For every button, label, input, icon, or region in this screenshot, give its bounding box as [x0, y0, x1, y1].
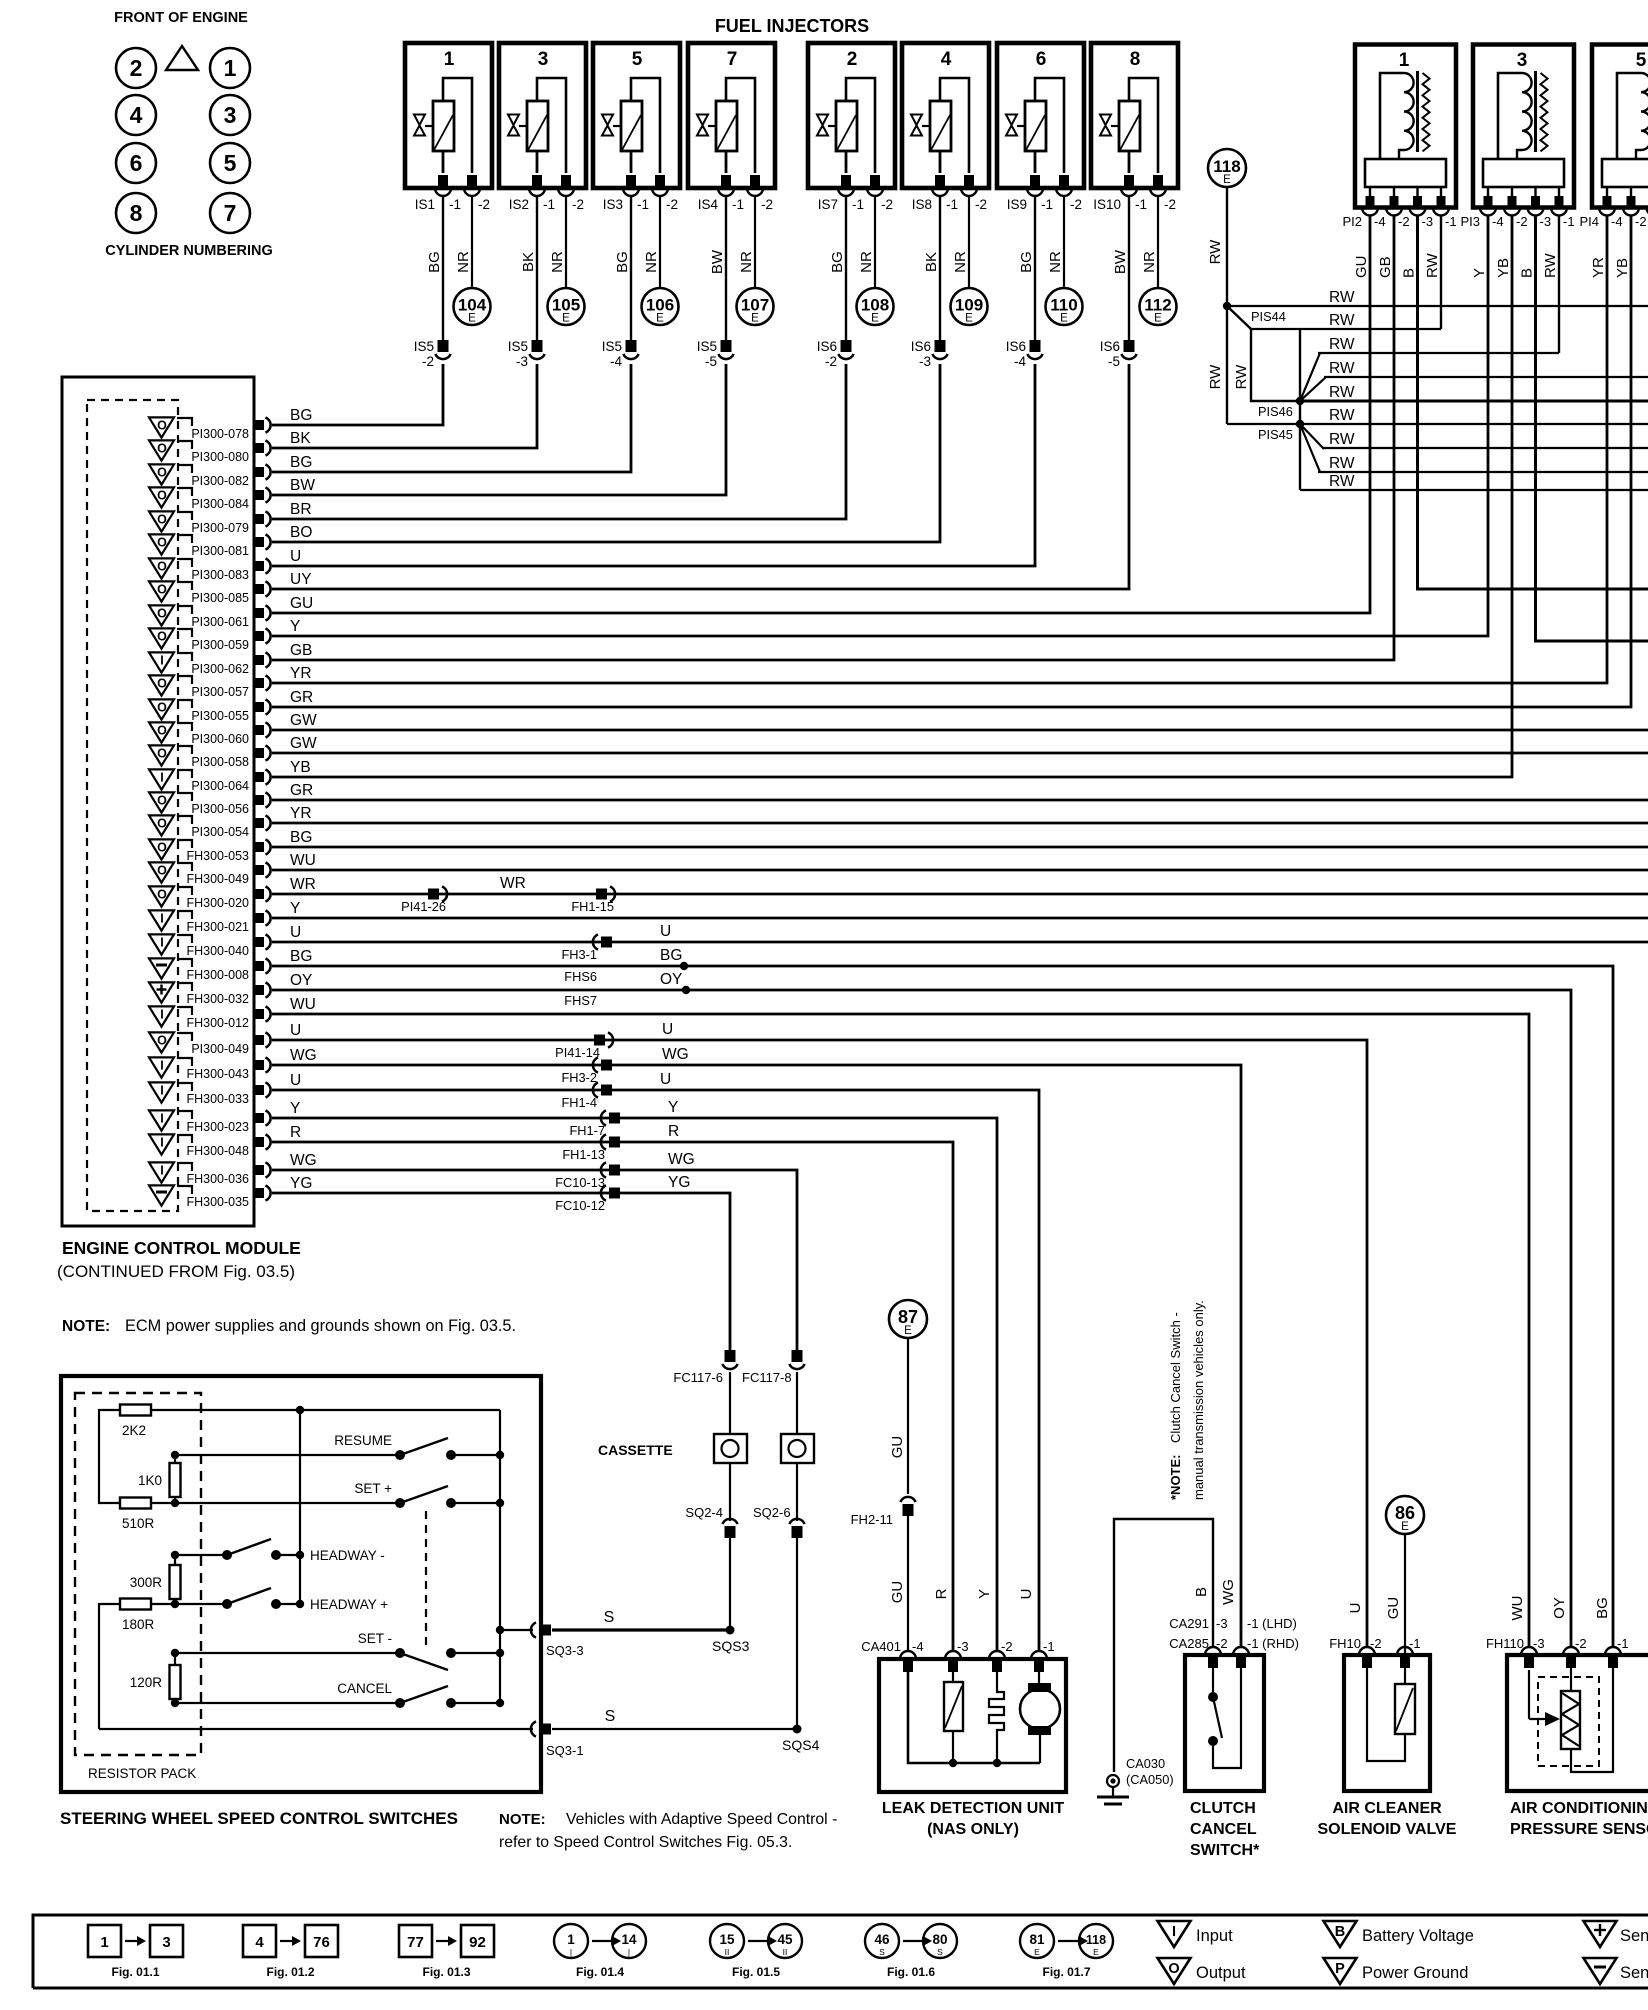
svg-text:2: 2	[130, 55, 143, 81]
ECM pin label FH300-048	[186, 1144, 249, 1158]
ECM pin terminal PI300-057	[254, 675, 271, 690]
coil 5 pin -4	[1599, 196, 1615, 216]
wire label RW row 9	[1329, 473, 1355, 490]
splice SQS3	[712, 1626, 750, 1655]
svg-text:5: 5	[1636, 50, 1647, 71]
svg-text:NR: NR	[1047, 251, 1064, 273]
wire label BG (air con)	[1594, 1597, 1611, 1619]
ECM pin label PI300-060	[191, 732, 249, 746]
ECM pin label FH300-033	[186, 1092, 249, 1106]
svg-text:-1: -1	[946, 197, 958, 212]
svg-text:Fig. 01.5: Fig. 01.5	[732, 1965, 780, 1979]
injector 2 pin -2	[867, 175, 883, 196]
svg-text:4: 4	[130, 102, 143, 128]
ECM pin symbol PI300-060 (output)	[149, 722, 174, 742]
connector label FH10	[1329, 1636, 1420, 1651]
coil 1 pin stubs	[1370, 187, 1441, 197]
svg-text:YG: YG	[668, 1174, 690, 1191]
svg-text:S: S	[605, 1708, 616, 1725]
svg-text:-1: -1	[732, 197, 744, 212]
connector label CA291/CA285	[1169, 1616, 1299, 1651]
svg-text:3: 3	[538, 49, 549, 70]
svg-text:RW: RW	[1329, 455, 1355, 472]
svg-text:B: B	[1401, 268, 1418, 278]
injector 7 pin -1	[718, 175, 734, 196]
svg-text:PI300-054: PI300-054	[191, 825, 249, 839]
svg-text:1: 1	[224, 55, 237, 81]
ECM pin label FH300-008	[186, 968, 249, 982]
svg-text:-2: -2	[1398, 214, 1410, 229]
coil 3 pin -3	[1528, 196, 1544, 216]
ground E106	[642, 288, 679, 325]
svg-text:P: P	[1335, 1961, 1345, 1977]
svg-text:S: S	[937, 1947, 943, 1957]
svg-text:FH300-033: FH300-033	[186, 1092, 249, 1106]
svg-text:E: E	[965, 313, 973, 325]
ECM pin bracket PI300-084	[177, 488, 192, 496]
svg-text:E: E	[871, 313, 879, 325]
svg-text:NR: NR	[738, 251, 755, 273]
legend ground range 46-80 (Fig. 01.6)	[865, 1924, 957, 1979]
svg-text:4: 4	[255, 1934, 264, 1951]
wire WG ECM to component	[272, 1170, 797, 1350]
svg-text:PI300-062: PI300-062	[191, 662, 249, 676]
svg-text:2: 2	[847, 49, 858, 70]
svg-text:O: O	[157, 864, 167, 878]
svg-text:NR: NR	[952, 251, 969, 273]
ECM pin bracket FH300-043	[177, 1058, 192, 1066]
wire label RW (vertical, left)	[1207, 364, 1224, 390]
wire label S (upper)	[604, 1609, 615, 1626]
svg-text:YB: YB	[1495, 258, 1512, 278]
wire 510R to junction	[151, 1502, 175, 1504]
coil 5 pin -3	[1647, 196, 1648, 216]
svg-text:GR: GR	[290, 782, 313, 799]
wire label WG	[290, 1152, 317, 1169]
svg-text:FC117-6: FC117-6	[673, 1370, 723, 1385]
svg-text:FH300-040: FH300-040	[186, 944, 249, 958]
resistor 1K0	[138, 1463, 181, 1497]
svg-text:Battery Voltage: Battery Voltage	[1362, 1927, 1474, 1945]
wire label UY	[290, 571, 312, 588]
svg-text:Fig. 01.7: Fig. 01.7	[1042, 1965, 1090, 1979]
ECM pin symbol FH300-021 (input)	[149, 910, 174, 930]
ECM pin label PI300-055	[191, 709, 249, 723]
wire RW branch to row 7	[1300, 424, 1324, 449]
ECM pin label FH300-040	[186, 944, 249, 958]
air con title	[1510, 1800, 1648, 1838]
splice PIS44	[1223, 302, 1286, 324]
svg-text:FH2-11: FH2-11	[851, 1512, 893, 1527]
wire label GR	[290, 782, 313, 799]
connector label IS1	[415, 197, 490, 212]
svg-text:RW: RW	[1329, 431, 1355, 448]
svg-text:PI300-060: PI300-060	[191, 732, 249, 746]
svg-text:I: I	[160, 1059, 163, 1073]
svg-text:O: O	[157, 607, 167, 621]
fuel injector 5 box (IS3)	[593, 43, 680, 188]
svg-text:8: 8	[1130, 49, 1141, 70]
injector 1 pin -1	[435, 175, 451, 196]
wire label BR	[290, 501, 312, 518]
wire label YB	[1495, 258, 1512, 278]
svg-text:O: O	[157, 466, 167, 480]
ECM pin bracket PI300-061	[177, 606, 192, 614]
ground label CA030	[1126, 1756, 1174, 1787]
wire label U (after PI41-14)	[662, 1021, 673, 1038]
ECM pin terminal PI300-058	[254, 745, 271, 760]
wire SQ2-4 to splice SQS3	[729, 1538, 731, 1630]
ECM pin bracket PI300-055	[177, 700, 192, 708]
svg-text:BW: BW	[709, 249, 726, 274]
wire label B	[1519, 268, 1536, 278]
svg-text:Output: Output	[1196, 1964, 1246, 1982]
wire label R (after FH1-13)	[668, 1123, 679, 1140]
wire NR from IS10-2	[1157, 196, 1159, 288]
svg-text:PI41-14: PI41-14	[555, 1045, 600, 1060]
inline connector FC117-8	[742, 1350, 805, 1385]
wire row HEADWAY+	[175, 1603, 227, 1605]
inline connector PI41-26	[401, 886, 447, 914]
inline connector FC117-6	[673, 1350, 737, 1385]
svg-text:O: O	[157, 442, 167, 456]
svg-text:-2: -2	[1516, 214, 1528, 229]
ECM pin symbol FH300-053 (output)	[149, 839, 174, 859]
ECM pin bracket FH300-012	[177, 1007, 192, 1015]
splice SQS4	[782, 1725, 820, 1754]
svg-text:-2: -2	[1001, 1639, 1013, 1654]
svg-text:PI3: PI3	[1460, 214, 1480, 229]
ECM pin symbol FH300-012 (input)	[149, 1006, 174, 1026]
svg-text:O: O	[157, 701, 167, 715]
svg-text:RW: RW	[1207, 364, 1224, 390]
ECM pin bracket FH300-049	[177, 863, 192, 871]
inline connector IS6-2	[817, 339, 854, 369]
wire label U	[290, 548, 301, 565]
ECM pin label FH300-053	[186, 849, 249, 863]
svg-text:FH300-036: FH300-036	[186, 1172, 249, 1186]
wire row SET+	[175, 1502, 400, 1504]
svg-text:FC10-13: FC10-13	[555, 1175, 605, 1190]
svg-text:OY: OY	[290, 972, 312, 989]
svg-text:BK: BK	[923, 252, 940, 272]
ECM pin terminal FH300-008	[254, 958, 271, 973]
legend sensor supply symbol	[1584, 1921, 1648, 1947]
wire label BG	[1018, 251, 1035, 273]
wire label YR	[290, 665, 312, 682]
connector SQ3-3	[531, 1622, 584, 1658]
leak unit bus junction 1	[949, 1759, 957, 1767]
clutch switch contacts	[1208, 1668, 1241, 1768]
svg-text:8: 8	[130, 200, 143, 226]
ECM pin label FH300-020	[186, 896, 249, 910]
ECM pin label PI300-058	[191, 755, 249, 769]
ground E87	[889, 1300, 927, 1338]
ECM pin terminal PI300-084	[254, 487, 271, 502]
splice FHS7	[564, 986, 690, 1008]
wire label GU (air cleaner)	[1385, 1597, 1402, 1620]
svg-text:IS3: IS3	[603, 197, 623, 212]
svg-text:O: O	[157, 1034, 167, 1048]
cylinder numbering caption	[105, 243, 273, 259]
ECM pin bracket PI300-054	[177, 816, 192, 824]
switch RESUME	[334, 1433, 500, 1460]
junction exit SQ3-3	[496, 1626, 504, 1634]
legend splice range 1-3 (Fig. 01.1)	[88, 1925, 183, 1979]
svg-text:HEADWAY -: HEADWAY -	[310, 1548, 385, 1563]
connector label IS2	[509, 197, 584, 212]
ECM pin symbol FH300-008 (sensor)	[149, 958, 174, 978]
wire label Y (after FH1-7)	[668, 1099, 678, 1116]
ECM pin symbol FH300-020 (output)	[149, 886, 174, 906]
injector 3 pin -1	[529, 175, 545, 196]
svg-text:1: 1	[1399, 50, 1410, 71]
ECM title	[62, 1238, 301, 1258]
leak detection unit box	[879, 1659, 1066, 1792]
wire label BW	[709, 249, 726, 274]
injector 1 pin -2	[464, 175, 480, 196]
clutch switch title	[1190, 1800, 1260, 1859]
svg-text:FH300-012: FH300-012	[186, 1016, 249, 1030]
wire UY ECM to injector column	[272, 364, 1129, 589]
wire label WU	[290, 996, 316, 1013]
injector 8 coil element	[1100, 78, 1158, 173]
svg-text:PI300-049: PI300-049	[191, 1042, 249, 1056]
svg-text:PIS44: PIS44	[1251, 309, 1286, 324]
ground E109	[951, 288, 988, 325]
svg-text:6: 6	[130, 150, 143, 176]
injector 2 pin -1	[838, 175, 854, 196]
svg-text:SQS4: SQS4	[782, 1737, 820, 1753]
wire Y ECM to component	[272, 1118, 997, 1651]
svg-text:ENGINE CONTROL MODULE: ENGINE CONTROL MODULE	[62, 1238, 301, 1258]
wire label BG	[290, 454, 312, 471]
wire row RESUME	[175, 1454, 400, 1456]
wire U ECM to page edge	[272, 941, 1648, 944]
wire BK ECM to injector column	[272, 364, 537, 448]
ECM pin terminal FH300-032	[254, 982, 271, 997]
svg-text:FC10-12: FC10-12	[555, 1198, 605, 1213]
svg-text:PI300-061: PI300-061	[191, 615, 249, 629]
ignition coil 1 box (PI2)	[1355, 45, 1456, 208]
ECM pin label FH300-049	[186, 872, 249, 886]
svg-text:-2: -2	[975, 197, 987, 212]
connector SQ3-1	[531, 1721, 584, 1758]
ECM pin bracket PI300-056	[177, 793, 192, 801]
ECM pin label PI300-061	[191, 615, 249, 629]
svg-text:-2: -2	[1216, 1636, 1228, 1651]
ECM pin terminal PI300-083	[254, 558, 271, 573]
wire GU to CA401-4	[907, 1516, 909, 1651]
wire R ECM to component	[272, 1142, 953, 1651]
air con pin -3	[1521, 1647, 1537, 1668]
ECM pin bracket PI300-080	[177, 441, 192, 449]
wire label GB	[290, 642, 312, 659]
resistor pack dashed box	[75, 1393, 201, 1755]
ECM pin symbol PI300-054 (output)	[149, 815, 174, 835]
svg-text:RW: RW	[1329, 289, 1355, 306]
svg-text:FH300-049: FH300-049	[186, 872, 249, 886]
ECM pin symbol PI300-055 (output)	[149, 699, 174, 719]
svg-text:CA291: CA291	[1169, 1616, 1209, 1631]
wire BW from IS4-1	[725, 196, 727, 341]
coil 3 connector bar	[1483, 159, 1564, 187]
ECM pin label PI300-085	[191, 591, 249, 605]
wire label BG (after FHS6)	[660, 947, 682, 964]
ECM pin terminal PI300-080	[254, 440, 271, 455]
svg-text:-1: -1	[1563, 214, 1575, 229]
wire NR from IS9-2	[1063, 196, 1065, 288]
wire label BW	[1112, 249, 1129, 274]
svg-text:SWITCH*: SWITCH*	[1190, 1842, 1260, 1859]
wire U ECM to component	[272, 1040, 1367, 1647]
ECM pin terminal PI300-061	[254, 605, 271, 620]
svg-text:O: O	[1168, 1961, 1179, 1977]
svg-text:RW: RW	[1329, 384, 1355, 401]
ECM pin label PI300-049	[191, 1042, 249, 1056]
ECM pin symbol FH300-043 (input)	[149, 1057, 174, 1077]
coil 1 secondary winding	[1423, 73, 1430, 151]
cylinder 5 circle	[210, 143, 250, 183]
wire label YG (after FC10-12)	[668, 1174, 690, 1191]
switch CANCEL	[337, 1681, 500, 1708]
connector label IS9	[1007, 197, 1082, 212]
svg-text:Fig. 01.3: Fig. 01.3	[422, 1965, 470, 1979]
svg-text:O: O	[157, 536, 167, 550]
steering wheel switches box	[61, 1376, 541, 1792]
junction RESUME right	[496, 1451, 504, 1459]
ground E86	[1386, 1496, 1424, 1534]
wire label GU	[1353, 256, 1370, 279]
svg-text:SQ3-3: SQ3-3	[546, 1643, 584, 1658]
wire GU from E87	[907, 1339, 909, 1495]
resistor 120R	[130, 1653, 181, 1703]
svg-text:3: 3	[1517, 50, 1528, 71]
svg-text:510R: 510R	[122, 1516, 155, 1531]
ECM pin terminal FH300-023	[254, 1110, 271, 1125]
ECM pin terminal PI300-078	[254, 417, 271, 432]
coil 1 pin -2	[1386, 196, 1402, 216]
svg-text:BK: BK	[290, 430, 311, 447]
ECM pin label PI300-057	[191, 685, 249, 699]
wire label S (lower)	[605, 1708, 616, 1725]
wire label GU	[290, 595, 313, 612]
svg-text:FH3-2: FH3-2	[561, 1070, 597, 1085]
svg-text:2K2: 2K2	[122, 1423, 146, 1438]
wire label RW row 8	[1329, 455, 1355, 472]
ECM pin symbol PI300-079 (output)	[149, 511, 174, 531]
svg-text:FH300-048: FH300-048	[186, 1144, 249, 1158]
ECM pin bracket PI300-083	[177, 559, 192, 567]
wire BG ECM to page edge	[272, 846, 1648, 849]
leak unit resistor	[944, 1672, 963, 1763]
wire label GU (upper)	[889, 1436, 906, 1459]
inline connector IS6-4	[1006, 339, 1043, 369]
svg-text:-1: -1	[1041, 197, 1053, 212]
ECM pin terminal FH300-020	[254, 886, 271, 901]
svg-text:OY: OY	[660, 971, 682, 988]
svg-text:RW: RW	[1542, 252, 1559, 278]
coil 1 pin -1	[1433, 196, 1449, 216]
injector 1 coil element	[414, 78, 472, 173]
svg-text:FH1-15: FH1-15	[571, 899, 614, 914]
ECM pin terminal PI300-081	[254, 534, 271, 549]
svg-text:IS6: IS6	[1100, 339, 1120, 354]
wire RW vertical through splices	[1299, 329, 1301, 490]
connector label IS7	[818, 197, 893, 212]
svg-text:O: O	[157, 489, 167, 503]
svg-text:IS5: IS5	[508, 339, 528, 354]
switch HEADWAY +	[222, 1588, 388, 1612]
svg-text:O: O	[157, 817, 167, 831]
svg-text:GU: GU	[1385, 1597, 1402, 1620]
air con sensor wiring	[1571, 1668, 1613, 1772]
svg-text:CANCEL: CANCEL	[337, 1681, 392, 1696]
svg-text:-5: -5	[705, 354, 717, 369]
svg-text:BW: BW	[1112, 249, 1129, 274]
svg-text:BG: BG	[829, 251, 846, 273]
svg-text:NR: NR	[549, 251, 566, 273]
svg-text:SQ2-6: SQ2-6	[753, 1505, 791, 1520]
resistor pack left rail (upper)	[99, 1410, 120, 1503]
wire B coil 3 to page edge	[1536, 216, 1648, 641]
svg-text:R: R	[933, 1588, 950, 1599]
svg-text:PI2: PI2	[1342, 214, 1362, 229]
svg-text:U: U	[290, 1072, 301, 1089]
wire label U (air cleaner)	[1347, 1603, 1364, 1614]
wire BK from IS2-1	[536, 196, 538, 341]
wire label NR	[549, 251, 566, 273]
wire label BG	[290, 407, 312, 424]
wire label BK	[520, 252, 537, 272]
ECM pin symbol PI300-058 (output)	[149, 745, 174, 765]
svg-text:-2: -2	[666, 197, 678, 212]
svg-text:-1: -1	[852, 197, 864, 212]
svg-text:GU: GU	[290, 595, 313, 612]
wire RW row 2	[1251, 328, 1441, 330]
ECM pin symbol FH300-032 (sensor)	[149, 982, 174, 1002]
wire S upper	[552, 1628, 730, 1631]
svg-text:FH1-4: FH1-4	[561, 1095, 597, 1110]
injector 3 pin -2	[558, 175, 574, 196]
ECM pin bracket FH300-008	[177, 959, 192, 967]
legend ground range 81-118 (Fig. 01.7)	[1020, 1924, 1113, 1979]
wire GU ECM to ignition coil	[272, 216, 1370, 613]
junction row D	[171, 1551, 179, 1559]
svg-text:IS8: IS8	[912, 197, 932, 212]
svg-text:WU: WU	[290, 996, 316, 1013]
svg-text:O: O	[157, 630, 167, 644]
svg-text:Y: Y	[1471, 268, 1488, 278]
ECM pin bracket PI300-049	[177, 1033, 192, 1041]
svg-text:FH110: FH110	[1486, 1636, 1524, 1651]
wire label Y	[290, 618, 300, 635]
svg-text:I: I	[1172, 1924, 1176, 1940]
air con pin -2	[1563, 1647, 1579, 1668]
svg-text:I: I	[160, 771, 163, 785]
wire WG ECM to component	[272, 1065, 1241, 1647]
svg-text:STEERING WHEEL SPEED CONTROL S: STEERING WHEEL SPEED CONTROL SWITCHES	[60, 1809, 458, 1828]
svg-text:FH300-035: FH300-035	[186, 1195, 249, 1209]
wire RW row 3	[1318, 352, 1559, 354]
svg-text:-2: -2	[1370, 1636, 1382, 1651]
svg-text:Y: Y	[668, 1099, 678, 1116]
wire U ECM to component	[272, 1090, 1039, 1651]
wire BO ECM to injector column	[272, 364, 940, 542]
ECM pin label FH300-023	[186, 1120, 249, 1134]
wire label Y (leak)	[976, 1589, 993, 1599]
svg-text:GU: GU	[1353, 256, 1370, 279]
